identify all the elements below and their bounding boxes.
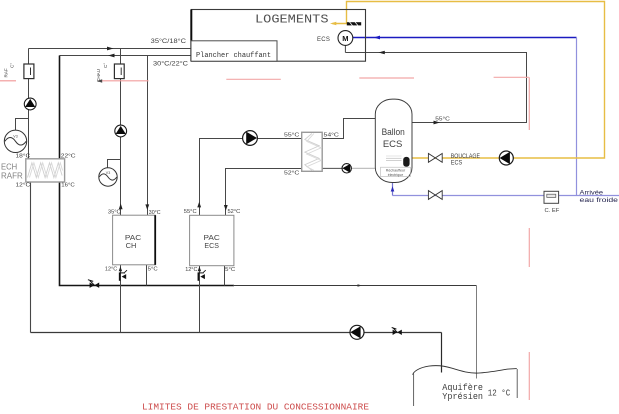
wire production well drop (441, 333, 443, 373)
svg-text:30°C/22°C: 30°C/22°C (153, 60, 188, 68)
meter C CHAU (114, 64, 124, 79)
ballon ECS tank (375, 99, 412, 182)
red limit dash y78 seg4 (359, 77, 414, 79)
wire exchanger to ballon top feed (322, 119, 375, 139)
aquifer water table wave (413, 366, 517, 375)
arrow up PAC ECS 55C (197, 202, 201, 208)
svg-text:C. EF: C. EF (545, 208, 560, 214)
svg-text:CH: CH (126, 243, 137, 250)
label ECH RAFR (1, 162, 23, 181)
svg-text:35°C: 35°C (108, 209, 121, 215)
svg-text:55°C: 55°C (284, 132, 299, 138)
svg-text:12°C: 12°C (105, 266, 117, 272)
red limit dash y79 seg3 (226, 78, 280, 80)
wire supply 35C/18C to plancher (29, 48, 192, 50)
red limit vertical seg2 (528, 228, 530, 267)
wire exchanger 52C return to PAC ECS (226, 169, 302, 216)
rechauffeur electrique box (381, 167, 411, 177)
svg-text:V3: V3 (106, 171, 110, 175)
arrow down 30C (145, 204, 149, 210)
arrow left yellow bouclage (330, 22, 336, 26)
svg-text:12°C: 12°C (185, 267, 197, 273)
meter C RAF (24, 64, 34, 79)
wire cold collector bottom (31, 332, 442, 334)
svg-text:RAF: RAF (4, 68, 9, 77)
svg-text:5°C: 5°C (225, 267, 235, 273)
wire ballon cold riser (392, 183, 394, 196)
wire PAC ECS 5C drop (224, 266, 226, 286)
exchanger ECH RAFR (26, 159, 65, 182)
aquifer left edge (413, 374, 415, 407)
svg-text:V3: V3 (13, 135, 17, 139)
svg-text:PAC: PAC (125, 235, 141, 242)
svg-text:52°C: 52°C (228, 209, 241, 215)
wire cold water to mitigeur blue (353, 37, 577, 39)
wire return 30C x147.3 (147, 56, 149, 216)
pump P2 chau riser (115, 125, 127, 137)
valve bouclage yellow (428, 154, 442, 163)
wire cold water main horizontal (393, 195, 619, 197)
svg-text:16°C: 16°C (61, 182, 75, 188)
pump P4 bouclage (499, 151, 513, 165)
label arrivee eau froide (580, 189, 619, 204)
arrow left ECS distribution (379, 51, 385, 55)
pump P1 raf riser (24, 98, 36, 110)
drain valve below PAC CH (120, 270, 127, 281)
box PAC CH (113, 215, 156, 265)
valve forage line (392, 328, 402, 336)
arrow up PAC CH 12C (119, 266, 122, 271)
svg-text:ECS: ECS (317, 37, 330, 43)
svg-text:PAC: PAC (204, 235, 220, 242)
wire bouclage ECS yellow (333, 2, 605, 159)
svg-text:52°C: 52°C (284, 170, 299, 176)
svg-text:Arrivée: Arrivée (580, 189, 604, 196)
svg-text:12 °C: 12 °C (488, 389, 510, 399)
plate exchanger ECS (302, 132, 323, 171)
wire mitigeur stub (344, 45, 346, 52)
wire stub valve V3-2 (108, 160, 121, 169)
svg-text:RAFR: RAFR (1, 171, 23, 181)
wire ECS distribution ballon to mitigeur (345, 53, 526, 123)
svg-text:LOGEMENTS: LOGEMENTS (255, 13, 329, 27)
arrow right on warm collector (358, 284, 363, 287)
svg-text:ECS: ECS (204, 243, 219, 250)
wire pump5 to ballon gray (351, 167, 375, 169)
valve eau froide blue (428, 191, 442, 200)
box LOGEMENTS (191, 10, 365, 62)
hatch mark near mitigeur (347, 22, 361, 26)
red limit vertical seg1 (528, 77, 530, 130)
wire riser CHAU x120.7 (120, 49, 122, 216)
wire PAC ECS 12C drop (199, 266, 201, 333)
svg-text:électrique: électrique (388, 173, 404, 177)
arrow up riser CHAU (119, 203, 123, 209)
wire return 30C/22C from plancher (60, 55, 192, 57)
label C CHAU rotated (96, 63, 108, 82)
svg-text:ECS: ECS (383, 139, 403, 150)
wire warm collector to injection well (233, 285, 477, 287)
svg-text:C°: C° (103, 63, 108, 68)
wire exchanger bottom to pump5 (322, 167, 342, 169)
svg-text:M: M (342, 34, 348, 43)
svg-text:Ballon: Ballon (382, 127, 405, 138)
wire thick 16C to collector (60, 182, 235, 286)
label aquifere ypresien (442, 383, 510, 402)
pump P3 pac ecs to exchanger (243, 131, 258, 146)
arrow right on supply (107, 47, 114, 51)
arrow up PAC ECS 12C (198, 266, 201, 271)
svg-text:ECS: ECS (451, 160, 463, 166)
svg-text:35°C/18°C: 35°C/18°C (151, 37, 187, 45)
mitigeur M (338, 31, 353, 46)
svg-text:5°C: 5°C (148, 266, 158, 272)
wire injection well drop (476, 286, 478, 379)
arrow down 52C (224, 205, 228, 211)
arrow up ballon cold riser (391, 186, 395, 191)
wire PAC ECS 55C to exchanger (200, 139, 302, 216)
box plancher chauffant (191, 41, 277, 61)
wire PAC CH 12C drop (120, 265, 122, 333)
wire 12C left riser from ECH (30, 182, 32, 333)
label C RAF rotated (4, 63, 15, 78)
arrow left on return (108, 54, 115, 58)
svg-text:55°C: 55°C (184, 209, 197, 215)
wire PAC CH 5C drop (146, 265, 148, 286)
arrow left blue mitigeur (374, 36, 381, 40)
valve on warm collector (88, 280, 99, 288)
red limit dash y79 seg2 (99, 80, 149, 82)
svg-text:C°: C° (10, 63, 15, 68)
pump P6 forage (350, 325, 364, 339)
valve V3-2 (99, 168, 117, 186)
aquifer right edge (516, 369, 518, 398)
label BOUCLAGE ECS (451, 154, 480, 167)
pump P5 exchanger to ballon (342, 164, 351, 173)
valve V3-1 (4, 130, 26, 152)
wire thick 22C down x59.8 (59, 56, 61, 159)
svg-text:55°C: 55°C (435, 117, 450, 123)
svg-text:12°C: 12°C (16, 182, 31, 188)
red limit vertical seg3 (528, 352, 530, 400)
wire stub valve V3-1 (16, 119, 29, 131)
wire riser RAF x28.5 (28, 49, 30, 159)
svg-text:eau froide: eau froide (580, 197, 619, 204)
svg-text:54°C: 54°C (324, 132, 339, 138)
red limit dash y79 seg1 (0, 80, 16, 82)
wire cold water vertical light blue (576, 38, 578, 196)
svg-text:Yprésien: Yprésien (442, 392, 483, 402)
heating element coil (386, 156, 410, 167)
meter C EF (544, 191, 559, 203)
drain valve below PAC ECS (198, 270, 205, 281)
red limit dash y77 seg5 (494, 76, 529, 78)
svg-text:Plancher chauffant: Plancher chauffant (196, 52, 271, 60)
arrow right ballon outlet (434, 121, 441, 125)
svg-text:BOUCLAGE: BOUCLAGE (451, 154, 480, 160)
box PAC ECS (190, 215, 234, 265)
svg-text:LIMITES DE PRESTATION DU CONCE: LIMITES DE PRESTATION DU CONCESSIONNAIRE (142, 402, 369, 413)
